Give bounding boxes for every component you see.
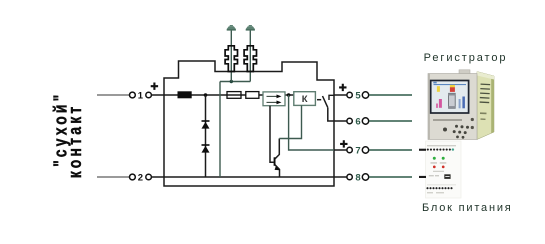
svg-text:контакт: контакт <box>66 104 86 179</box>
polarity + at terminal 5 <box>339 84 346 91</box>
junction dot arrester bus <box>230 80 233 83</box>
switch fixed contact hook <box>329 95 334 100</box>
resistor R2 <box>227 92 241 99</box>
resistor R1 (filled) <box>178 91 192 98</box>
wire: module edge to terminal 7 <box>334 149 347 151</box>
arrester F2 electrode lead (green) <box>249 29 251 81</box>
emitter arrowhead <box>275 166 280 170</box>
wire: external lead to terminal 1 <box>97 94 129 96</box>
terminal 1 circles <box>130 92 136 98</box>
transistor VT1 base bar <box>274 157 276 166</box>
transistor VT1 emitter with arrow <box>275 165 280 177</box>
mechanical link dash <box>317 99 321 101</box>
wire: terminal 8 to power unit (green) <box>369 176 412 178</box>
svg-text:1: 1 <box>138 90 144 101</box>
module enclosure outline <box>164 61 334 186</box>
terminal 2 circles <box>130 174 136 180</box>
svg-text:7: 7 <box>355 145 360 156</box>
arrester F1 top cap <box>227 25 236 31</box>
wire: external lead to terminal 2 <box>97 176 129 178</box>
wire: main positive rail inside module <box>164 94 263 96</box>
svg-text:Регистратор: Регистратор <box>424 52 508 64</box>
optocoupler U1 box <box>263 92 285 106</box>
transistor VT1 base lead from opto <box>270 106 274 163</box>
node B junction dot <box>287 93 291 97</box>
wire: node B to terminal 7 (green) <box>289 95 334 150</box>
svg-text:8: 8 <box>355 172 360 183</box>
polarity + at terminal 7 <box>340 140 347 147</box>
recorder device image <box>428 70 494 140</box>
svg-text:Блок питания: Блок питания <box>422 202 513 214</box>
polarity + at terminal 1 <box>151 83 158 90</box>
arrester F2 top cap <box>246 25 255 31</box>
switch contact arm <box>323 96 328 108</box>
terminal 8 circles <box>347 174 352 179</box>
power unit device image <box>419 141 461 198</box>
wire: bottom common rail (terminal 2 to terminal 8) <box>152 176 347 178</box>
transistor VT1 collector <box>275 139 279 159</box>
diode VD1 <box>202 120 210 128</box>
arrester F2 body <box>244 46 256 72</box>
wire: arrester common bus (green) <box>220 81 250 83</box>
wire: switch to terminal 6 <box>328 108 347 121</box>
terminal 5 circles <box>347 92 352 97</box>
wire: module edge to terminal 5 <box>334 94 347 96</box>
arrester F1 body <box>225 46 237 72</box>
wire: collector to relay coil (green) <box>279 105 301 138</box>
svg-text:5: 5 <box>355 90 361 101</box>
arrester F1 electrode lead (green) <box>230 29 232 81</box>
optocoupler arrow 2 <box>267 101 282 105</box>
svg-text:6: 6 <box>355 116 360 127</box>
wire: arrester ground drop (green) <box>219 82 221 178</box>
terminal 6 circles <box>347 118 352 123</box>
wire: terminal 7 to power unit (green) <box>369 149 412 151</box>
node A junction dot <box>204 93 208 97</box>
svg-text:2: 2 <box>138 172 143 183</box>
relay K coil box <box>294 92 316 106</box>
svg-text:К: К <box>302 94 308 105</box>
optocoupler arrow 1 <box>267 95 282 99</box>
wire: opto output to relay <box>285 94 294 96</box>
wire: terminal 5 to recorder (green) <box>369 94 412 96</box>
terminal 7 circles <box>347 147 352 152</box>
wire: terminal 6 to recorder (green) <box>369 120 412 122</box>
resistor R3 <box>246 92 259 99</box>
diode VD2 <box>202 144 210 152</box>
wire: diode chain vertical <box>205 95 207 177</box>
wire: terminal 1 to module edge <box>152 94 165 96</box>
